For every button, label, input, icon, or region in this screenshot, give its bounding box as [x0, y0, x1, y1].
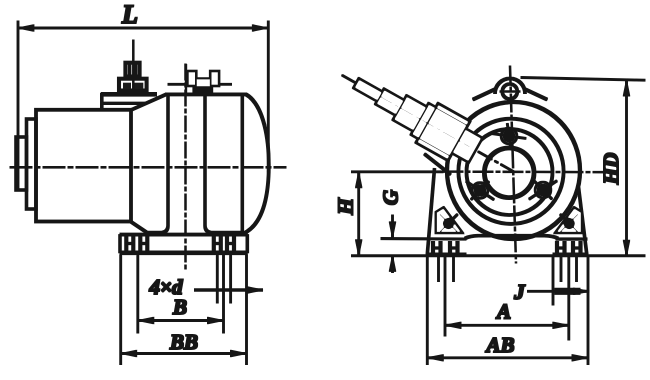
shaft section two [376, 89, 404, 115]
housing outer circle [447, 102, 580, 239]
J reference line left [552, 256, 554, 305]
svg-text:AB: AB [484, 333, 514, 357]
housing left wall and left leg [131, 94, 168, 232]
dimension HD top arrow [626, 81, 628, 95]
housing slope chamfer [131, 94, 166, 110]
horizontal center line of left view [10, 166, 286, 168]
shaft section one [354, 79, 382, 101]
dimension HD bottom arrow [626, 241, 628, 256]
dimension A left arrow [446, 324, 459, 326]
vertical center line of right view [510, 66, 516, 263]
dimension G down arrow [392, 224, 394, 238]
dimension A right arrow [554, 324, 568, 326]
breather bracket shelf line [168, 83, 232, 85]
ground line [352, 255, 646, 257]
A extension line right [568, 256, 570, 340]
dimension G up arrow [392, 256, 394, 270]
right view left foot slot crossbars [433, 247, 441, 249]
B extension line left [137, 255, 139, 333]
right foot outer edge [579, 187, 587, 255]
dimension L line [30, 27, 256, 29]
oil plug base [119, 79, 147, 91]
top lug hole [502, 84, 517, 99]
L extension line right [267, 21, 269, 172]
housing middle rib / right leg left edge [205, 94, 243, 232]
bearing flange circle [458, 119, 563, 224]
oil plug hex facet right [134, 63, 137, 77]
housing bell arc [243, 94, 269, 233]
breather sight box [196, 79, 210, 87]
dimension G lower line [392, 256, 394, 273]
dimension L right arrow [244, 27, 268, 29]
top lug hole tick [500, 91, 520, 93]
dimension H top arrow [358, 172, 360, 186]
collar inner line lower [436, 108, 467, 125]
breather left post [188, 72, 196, 86]
motor body [36, 110, 131, 222]
svg-text:B: B [172, 295, 187, 319]
right foot slot crossbars [214, 242, 221, 244]
motor bearing step [27, 119, 37, 209]
J thick arrow blob [555, 288, 580, 294]
bolt top [492, 124, 526, 149]
top lug dome [495, 79, 525, 94]
left tangent line from collar to housing [425, 154, 451, 175]
left foot outer edge [427, 169, 434, 255]
vertical center line of housing [185, 64, 187, 271]
oil plug hex facet left [128, 63, 131, 77]
J arrowhead [574, 290, 589, 292]
dimension H bottom arrow [358, 241, 360, 255]
top lug left flare [473, 89, 496, 100]
hole edge extension lines under base [216, 255, 218, 303]
left foot slot marks [126, 237, 147, 250]
svg-text:G: G [379, 190, 403, 205]
L extension line left [17, 21, 19, 189]
svg-text:J: J [513, 280, 526, 304]
shaft axis dash overlay [380, 97, 470, 148]
right foot slot marks [214, 237, 234, 250]
dimension AB right arrow [574, 357, 588, 359]
left foot pad top with G reference [381, 238, 466, 241]
flange inner circle [467, 129, 553, 215]
right foot bottom thick [553, 253, 587, 256]
oil plug base smudge right [135, 83, 143, 88]
motor end cap [16, 137, 27, 190]
BB extension line right [246, 255, 248, 365]
dimension L left arrow [19, 27, 43, 29]
flange pad plate left edge [101, 93, 104, 110]
left gusset [436, 208, 462, 233]
right view right foot slot crossbars [557, 247, 565, 249]
dimension HD line [626, 80, 628, 256]
collar inner line upper [419, 138, 450, 155]
H reference line [352, 171, 444, 173]
slot edge stubs below base [438, 256, 440, 282]
bolt lower right [529, 181, 557, 199]
dimension AB left arrow [428, 357, 442, 359]
svg-text:BB: BB [169, 330, 198, 354]
breather dark base [193, 86, 213, 94]
right view right foot slot marks [557, 242, 581, 255]
base plate bottom edge [120, 251, 247, 255]
breather right post [211, 72, 219, 86]
right view left foot slot marks [433, 242, 458, 255]
AB extension line left [426, 256, 428, 365]
HD top extension line [521, 78, 645, 81]
svg-text:H: H [334, 198, 358, 216]
housing top edge [166, 93, 247, 96]
base arch [465, 236, 558, 239]
J leader line [528, 290, 589, 292]
svg-text:L: L [121, 0, 138, 29]
svg-text:HD: HD [599, 153, 623, 186]
input shaft group [346, 64, 486, 169]
left foot bottom thick [427, 253, 466, 256]
dimension H line [358, 172, 360, 256]
A extension line left [444, 256, 446, 336]
bore circle [484, 148, 534, 198]
dimension B line [138, 320, 224, 322]
shaft neck into housing [452, 129, 482, 162]
dimension AB line [427, 357, 588, 359]
flange pad plate top [102, 93, 157, 97]
right gusset [556, 208, 582, 233]
left foot slot crossbars [126, 242, 133, 244]
housing rear vertical edge [241, 95, 244, 233]
breather post guide line [185, 65, 187, 95]
dimension G upper line [392, 215, 394, 238]
BB extension line left [120, 255, 122, 365]
shaft axis center line [342, 75, 514, 171]
base plate right edge [246, 235, 249, 253]
AB extension line right [587, 256, 589, 365]
horizontal center line of right view [443, 171, 617, 174]
dimension B right arrow [209, 320, 223, 322]
dimension A line [445, 324, 569, 326]
dimension BB right arrow [232, 353, 246, 355]
shaft mounting collar [417, 104, 470, 160]
dimension B left arrow [138, 320, 152, 322]
bolt lower left [466, 181, 494, 199]
dimension BB line [121, 353, 247, 355]
4xd leader arrow [195, 289, 263, 291]
base plate left edge [119, 235, 122, 253]
right foot pad top [556, 238, 587, 240]
svg-text:A: A [495, 300, 511, 324]
B extension line right [223, 255, 225, 333]
oil plug base smudge left [124, 83, 131, 88]
flange pad plate bottom line [102, 102, 147, 104]
dimension BB left arrow [121, 353, 135, 355]
top lug right flare [525, 89, 548, 100]
oil plug center line [132, 40, 134, 94]
base plate top edge [120, 233, 247, 236]
shaft ring [412, 104, 436, 139]
oil plug hex head [125, 63, 139, 77]
shaft section three [394, 96, 427, 131]
